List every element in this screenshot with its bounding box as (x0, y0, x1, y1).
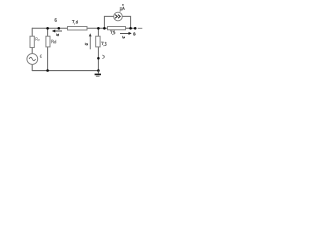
resistor R2 shunt value 7,5 (horizontal box) (108, 27, 126, 30)
wire source to bottom (31, 64, 33, 71)
wire Rv to source (31, 48, 33, 54)
label node b (55, 18, 57, 21)
resistor Rd (vertical box) (46, 36, 50, 47)
label current Ii (123, 36, 125, 38)
wire bottom horizontal (32, 70, 98, 72)
label uA (120, 4, 125, 11)
wire r3 top lead (97, 28, 99, 36)
junction node c1 (97, 27, 100, 30)
resistor R1 value 7,6 (horizontal box) (68, 27, 88, 31)
source E sine wave (29, 57, 35, 60)
label Rv (36, 38, 40, 41)
wire meter loop left (104, 16, 113, 28)
resistor r3 (vertical box) (96, 36, 100, 47)
wire Rd bottom lead (47, 47, 49, 71)
label value 7,6 (72, 20, 78, 24)
label Rd (52, 40, 56, 43)
current arrow Ia (up) (89, 34, 91, 49)
label current Id (56, 34, 58, 36)
ground (95, 71, 101, 77)
wire Rd top lead (47, 28, 49, 36)
label current Ia (85, 43, 87, 45)
wire r3 bottom lead (97, 47, 99, 71)
wire meter loop right (122, 16, 130, 28)
label value 7,5 (110, 31, 115, 35)
junction node c2 (103, 27, 106, 30)
wire top horizontal (32, 27, 135, 29)
label node 3 (102, 55, 104, 58)
label E source (40, 55, 42, 58)
current arrow Ii (right) (120, 33, 131, 35)
meter U1 microammeter circle (114, 12, 123, 21)
current arrow Id (left) (53, 30, 62, 32)
junction node d1 (129, 27, 132, 30)
junction node d2 (134, 27, 137, 30)
node 3 mid marker (97, 57, 100, 60)
wire stub right end (138, 27, 143, 29)
meter needle chevrons (115, 15, 120, 19)
label node v (134, 33, 136, 35)
wire left branch vertical (31, 28, 33, 36)
junction bottom ground (97, 69, 100, 72)
source E (AC source circle) (27, 54, 38, 65)
junction node b2 (58, 27, 61, 30)
resistor Rv (vertical box) (30, 36, 34, 47)
label value 7,3 (101, 42, 106, 46)
junction bottom Rd (46, 69, 49, 72)
junction node b1 (46, 27, 49, 30)
